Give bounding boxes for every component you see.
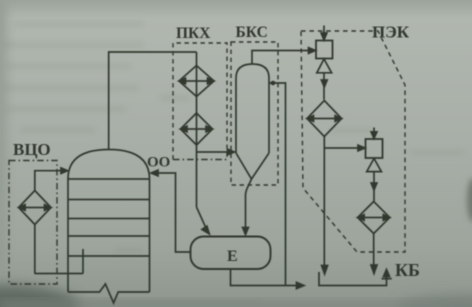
PEK dashed boundary polygon [301, 31, 405, 252]
inlet arrow into compressor 2 [373, 128, 375, 136]
arrow into column right wall [151, 170, 158, 176]
feed wire to BKS with arrow [197, 151, 230, 153]
column bottom wire with break symbol [68, 284, 150, 303]
wire draw-off to VCO [35, 273, 84, 275]
tray 4 [68, 235, 150, 237]
svg-text:ОО: ОО [147, 155, 170, 171]
VCO circulation wire down [34, 225, 36, 274]
tray 2 [68, 199, 150, 201]
reflux wire E to column top [156, 173, 191, 252]
condenser PKH-1 (diamond) [179, 66, 214, 97]
outlet wire from E bottom [231, 269, 300, 286]
svg-text:ВЦО: ВЦО [13, 140, 51, 159]
drum E (horizontal capsule) [191, 237, 271, 270]
arrow right toward KB trough [297, 282, 305, 288]
heat exchanger VCO (diamond) [19, 191, 51, 225]
main wire down to trough [323, 137, 325, 269]
cone outlet wire to drum E with arrow [246, 179, 252, 230]
svg-text:Е: Е [227, 248, 238, 265]
PKH dashed box [173, 43, 227, 160]
BKS dashed box [231, 42, 278, 185]
tray 5 draw-off [68, 255, 150, 257]
separator BKS (vessel with cone bottom) [236, 64, 269, 179]
condenser PKH-2 (diamond) [181, 113, 213, 145]
branch wire to compressor 2 with arrow [324, 147, 361, 149]
wire down to trough with arrow [373, 234, 375, 267]
arrow into column left wall [61, 168, 68, 174]
inlet arrow into compressor 1 [323, 26, 325, 37]
riser wire from column top [109, 52, 197, 150]
VCO return wire up [35, 171, 62, 191]
cooler PEK-1 (diamond) [307, 101, 342, 137]
downcomer pipe inside column [82, 249, 84, 274]
compressor 1 (square + triangle) [316, 41, 333, 73]
svg-text:КБ: КБ [395, 260, 420, 280]
svg-text:ПЭК: ПЭК [372, 23, 410, 42]
tray 1 [68, 178, 150, 180]
KB up arrow with tick [384, 270, 390, 277]
bypass wire down right side [269, 83, 286, 286]
wire down with arrow [323, 73, 325, 100]
column K1 shell (tray column, left) [68, 150, 150, 304]
OO dash-dot wire / PKH box bottom [173, 159, 227, 161]
wire PKH down to drum E with arrow [197, 207, 207, 229]
side tap node on BKS [271, 81, 276, 86]
compressor 2 (square + triangle) [366, 139, 383, 172]
svg-text:ПКХ: ПКХ [176, 25, 211, 42]
cooler PEK-2 (diamond) [358, 202, 390, 234]
overhead wire BKS to compressor with arrow [252, 51, 312, 65]
wire down with arrow [373, 172, 375, 201]
KB collection trough [319, 272, 387, 286]
svg-text:БКС: БКС [236, 24, 268, 41]
tray 3 [68, 218, 150, 220]
wire through PKH condensers [196, 52, 198, 207]
VCO dashed box [9, 161, 57, 285]
